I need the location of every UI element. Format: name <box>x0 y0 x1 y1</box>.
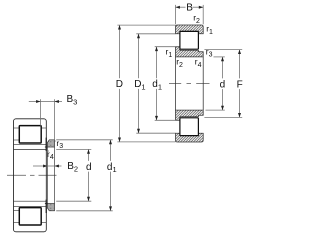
inner ring raceway line top <box>14 143 47 145</box>
inner ring bottom section (hatched) <box>176 110 204 120</box>
roller bottom (left bearing) <box>19 208 41 225</box>
bearing outline (left drawing, outer ring + rings silhouette) <box>14 119 47 232</box>
dimension D1 (outer ring flange bore) <box>136 33 175 35</box>
dimension d1 (inner ring flange diameter) <box>155 46 176 48</box>
dimension B (bearing width) <box>175 5 177 24</box>
centerline left bearing axis <box>7 174 26 176</box>
inner ring raceway line bottom <box>14 205 47 207</box>
HJ ring bore silhouette lines <box>47 147 49 204</box>
roller top (right bearing) <box>180 31 199 49</box>
dimension B2 <box>33 165 48 167</box>
inner ring bore line bottom <box>14 200 47 202</box>
dimension F (inner raceway diameter) <box>204 49 242 51</box>
svg-text:D: D <box>116 79 123 90</box>
roller bottom (right bearing) <box>180 118 199 136</box>
outer ring flange step lines <box>14 127 20 129</box>
dimension D (outer diameter) <box>117 24 175 26</box>
svg-text:B: B <box>186 2 193 13</box>
svg-text:d: d <box>86 162 92 173</box>
HJ angle ring top section (hatched) <box>48 140 55 147</box>
inner ring bore line top <box>14 148 47 150</box>
svg-text:F: F <box>237 79 243 90</box>
dimension d (left drawing, bore) <box>56 148 91 150</box>
dimension d (bore diameter) <box>214 56 225 58</box>
HJ angle ring bottom section (hatched) <box>48 204 55 211</box>
outer ring bottom section (hatched) <box>176 133 204 142</box>
dimension B3 <box>40 99 42 125</box>
dimension d1 (left drawing, HJ ring lip diameter) <box>56 139 112 141</box>
outer ring top section (hatched) <box>176 25 204 34</box>
inner ring right face <box>45 138 47 151</box>
roller top (left bearing) <box>19 126 41 143</box>
inner ring top section (hatched) <box>176 47 204 57</box>
inner ring flange step lines (left side) <box>14 139 20 141</box>
wire: bore silhouette sides right bearing <box>175 57 177 110</box>
centerline right bearing axis <box>169 83 181 85</box>
svg-text:d: d <box>220 79 226 90</box>
HJ ring washer base lines <box>45 146 48 148</box>
